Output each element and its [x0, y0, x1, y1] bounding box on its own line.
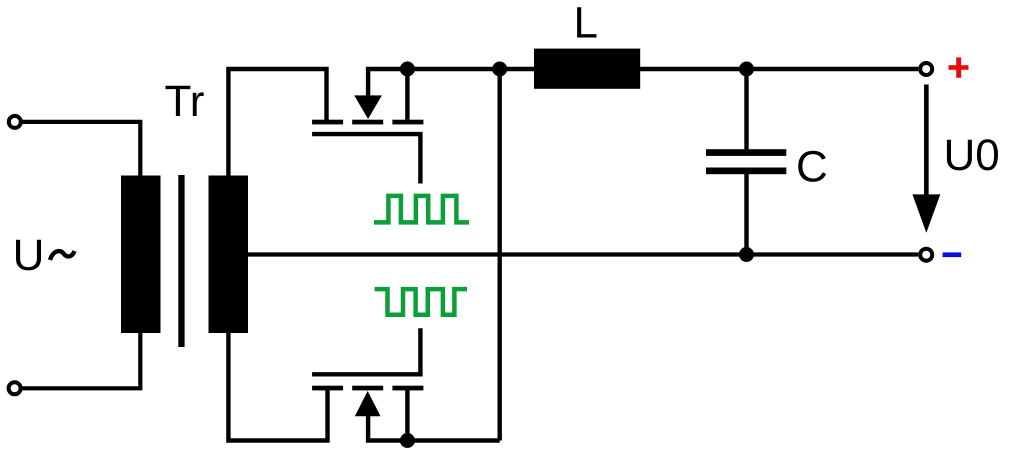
transformer Tr secondary winding: [209, 176, 249, 334]
gate drive waveform Q1: [374, 196, 469, 223]
output terminal plus: [920, 63, 932, 75]
transformer Tr primary winding: [121, 176, 161, 334]
input terminal bottom: [9, 382, 21, 394]
svg-text:C: C: [796, 142, 828, 191]
Q2 bulk arrow head: [355, 391, 381, 416]
vertical connector joining top and bottom output wires: [498, 69, 502, 441]
transistor Q2 (bottom MOSFET) bars: [312, 386, 343, 391]
plus sign: [949, 57, 969, 77]
capacitor C top plate: [706, 149, 786, 156]
svg-text:Tr: Tr: [165, 77, 205, 126]
Q1 source stub: [405, 69, 409, 120]
junction dot Q1 source / top wire: [400, 62, 415, 77]
transistor Q1 (top MOSFET) bars: [312, 120, 343, 125]
svg-text:L: L: [574, 0, 598, 48]
input terminal top: [9, 116, 21, 128]
junction dot center rail / capacitor: [739, 247, 754, 262]
wire secondary bottom tap to Q2 drain: [228, 332, 327, 441]
wire secondary center tap rail to output minus: [247, 252, 918, 256]
Q2 gate line: [312, 328, 420, 374]
inductor L: [534, 49, 640, 89]
capacitor C lead top: [744, 71, 748, 149]
U0 arrow stem: [924, 85, 929, 199]
transformer core: [178, 175, 184, 347]
capacitor C lead bottom: [744, 174, 748, 255]
Q1 bulk arrow stem and top output wire: [368, 69, 918, 98]
Q1 gate line: [312, 134, 420, 183]
svg-text:U0: U0: [944, 131, 1000, 180]
svg-text:U: U: [13, 231, 45, 280]
Q1 bulk arrow head: [354, 95, 382, 119]
minus sign: [943, 252, 962, 257]
gate drive waveform Q2: [375, 289, 467, 315]
Q2 source stub: [405, 390, 409, 441]
wire input top to transformer primary: [21, 122, 140, 176]
capacitor C bottom plate: [706, 168, 786, 175]
Q2 bulk arrow stem and bottom output wire: [368, 414, 500, 441]
wire secondary top tap to Q1 drain: [228, 69, 326, 176]
wire input bottom to transformer primary: [21, 332, 141, 388]
U0 arrow head: [912, 194, 940, 232]
junction dot top wire / capacitor: [739, 62, 754, 77]
junction dot top wire / vertical connector: [492, 62, 507, 77]
output terminal minus: [920, 249, 932, 261]
junction dot Q2 source / bottom wire: [400, 433, 415, 448]
tilde of U~: [50, 251, 75, 260]
